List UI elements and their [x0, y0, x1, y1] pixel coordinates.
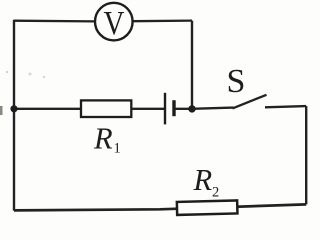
battery B1	[165, 93, 192, 125]
svg-text:R: R	[93, 121, 113, 155]
wire right drop from top to node	[191, 21, 193, 109]
svg-text:1: 1	[114, 141, 121, 157]
svg-text:R: R	[193, 163, 213, 197]
node left junction	[10, 105, 17, 112]
wire bottom	[14, 204, 306, 210]
svg-text:V: V	[104, 5, 125, 42]
wire top left segment	[14, 20, 95, 23]
wire middle segment (left node to battery)	[14, 108, 165, 110]
resistor R2	[177, 200, 238, 214]
node right junction	[188, 105, 195, 112]
switch S	[192, 95, 306, 109]
svg-text:2: 2	[212, 185, 219, 201]
voltmeter U1	[95, 3, 133, 42]
label R1	[93, 121, 121, 156]
scan smudges	[0, 71, 45, 115]
resistor R1	[81, 100, 131, 117]
wire left rail	[13, 20, 15, 211]
wire top right segment	[133, 19, 192, 22]
svg-text:S: S	[227, 63, 246, 100]
label R2	[193, 163, 220, 201]
wire right rail	[305, 106, 307, 204]
